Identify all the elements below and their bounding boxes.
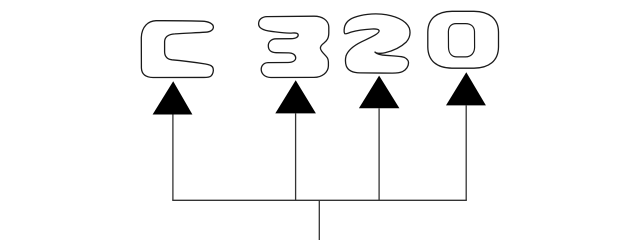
wire horizontal bus: [172, 199, 467, 201]
arrow 1 (under C): [153, 81, 193, 114]
digit 2 outline: [344, 14, 410, 73]
wire stem 2: [295, 113, 297, 200]
wire stem 3: [378, 108, 380, 200]
digit 0 outer outline: [428, 11, 499, 68]
digit 0 inner counter: [448, 24, 474, 57]
arrow 2 (under 3): [275, 80, 316, 113]
wire stem 4: [465, 105, 467, 200]
wire stem 1: [172, 115, 174, 201]
arrow 4 (under 0): [446, 72, 486, 105]
arrow 3 (under 2): [359, 76, 400, 109]
digit 3 outline: [259, 16, 329, 77]
wire center stem: [318, 200, 320, 240]
letter C outline: [141, 21, 213, 78]
